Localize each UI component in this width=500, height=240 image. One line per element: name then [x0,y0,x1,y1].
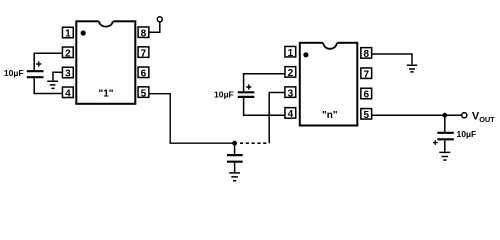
wire U1 pin8 to terminal [149,22,160,32]
U1 pin 4 [62,87,73,99]
svg-text:3: 3 [65,69,71,80]
Un pin 4 [285,108,296,120]
Un pin 1 [285,46,296,58]
ground at Un pin8 [407,65,417,72]
wire C4 bottom to ground [444,140,446,151]
svg-text:5: 5 [141,88,147,99]
U1 pin 2 [62,47,73,59]
U1 pin 8 [138,27,149,39]
svg-text:3: 3 [288,88,294,99]
svg-text:5: 5 [363,110,369,121]
U1 pin 3 [62,67,73,79]
node A junction dot [232,141,237,146]
Un pin 1 indicator dot [303,52,308,57]
capacitor C2 from junction A [234,143,236,154]
svg-text:4: 4 [65,89,71,100]
wire U1 pin5 to junction A [149,94,234,144]
op-amp U1 body [76,20,135,104]
capacitor C3 plus sign [246,84,251,89]
ground below C4 [439,152,450,160]
wire vertical up to Un pin3 [269,93,285,144]
U1 pin 1 indicator dot [81,30,86,35]
open terminal at U1 pin8 [157,17,162,22]
capacitor C1 plus sign [36,61,41,66]
capacitor C4 [437,133,453,140]
Un pin 2 [285,67,296,79]
svg-text:2: 2 [65,49,71,60]
U1 pin 1 [62,27,73,39]
wire U1 pin2 to C1 top [34,53,63,70]
open terminal VOUT [462,113,467,118]
capacitor C1 [27,71,44,77]
svg-text:7: 7 [363,69,369,80]
svg-text:1: 1 [288,48,294,59]
wire C1 bottom to U1 pin4 [34,78,63,93]
wire Un pin2 to C3 top [244,74,285,92]
svg-text:2: 2 [288,68,294,79]
wire C3 bottom to Un pin4 [244,98,285,115]
wire Un pin5 to VOUT terminal [372,114,461,116]
svg-text:10µF: 10µF [214,89,234,99]
svg-text:4: 4 [288,109,294,120]
svg-text:1: 1 [65,29,71,40]
dashed wire junction A to Un pin3 drop [240,142,269,144]
Un pin 3 [285,87,296,99]
wire node B to C4 [444,115,446,132]
svg-text:"1": "1" [98,89,113,100]
svg-text:8: 8 [141,28,147,39]
U1 pin 5 [138,87,149,99]
ground at U1 pin3 [47,81,58,88]
svg-text:10µF: 10µF [4,68,24,78]
capacitor C4 plus sign [433,140,438,145]
svg-text:OUT: OUT [479,115,495,124]
svg-text:10µF: 10µF [457,129,477,139]
ground below C2 [229,173,240,181]
svg-text:6: 6 [141,69,147,80]
Un pin 6 [361,88,372,100]
svg-text:8: 8 [363,49,369,60]
wire Un pin8 to ground [372,54,412,64]
U1 pin 7 [138,47,149,59]
svg-text:6: 6 [363,90,369,101]
node B junction dot [442,113,447,118]
Un pin 5 [361,109,372,121]
Un pin 8 [361,48,372,60]
Un pin 7 [361,68,372,80]
op-amp Un body [300,41,358,125]
capacitor C3 [238,92,255,97]
wire U1 pin3 to ground [53,72,63,80]
U1 pin 6 [138,67,149,79]
svg-text:"n": "n" [322,110,338,121]
svg-text:7: 7 [141,48,147,59]
